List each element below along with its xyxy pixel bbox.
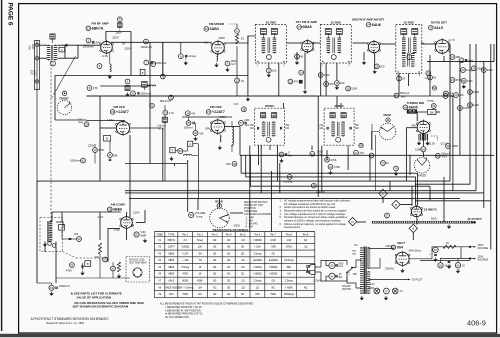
grid cap C2 callout <box>86 38 94 44</box>
svg-text:10.7MC: 10.7MC <box>403 20 415 24</box>
wire <box>369 249 395 269</box>
FM IF transformer T2 10.7MC <box>255 20 286 66</box>
osc cathode coil <box>218 135 222 150</box>
FRONT pulley hub <box>62 91 66 95</box>
V8 label <box>403 101 425 109</box>
ratio det electrolytic <box>459 58 474 63</box>
svg-text:2.5meg: 2.5meg <box>181 267 189 269</box>
wire <box>162 42 164 75</box>
svg-text:†1000Ω: †1000Ω <box>253 267 261 269</box>
part 150K <box>415 147 426 152</box>
svg-text:C: C <box>236 30 238 33</box>
svg-text:130V: 130V <box>124 47 131 51</box>
left margin rule <box>1 0 3 331</box>
wire <box>400 204 412 206</box>
svg-text:1M: 1M <box>198 287 201 289</box>
wire <box>369 155 371 181</box>
svg-text:600Ω: 600Ω <box>182 280 188 282</box>
filter cap 40mfd <box>429 247 438 262</box>
svg-text:750Ω: 750Ω <box>182 294 188 296</box>
wire <box>236 83 238 96</box>
svg-text:0Ω: 0Ω <box>272 280 275 282</box>
mixer osc-injection box <box>140 69 145 75</box>
AFC diode box <box>104 136 111 142</box>
svg-text:-1V: -1V <box>204 40 208 44</box>
wire <box>304 53 306 90</box>
svg-text:6AL5: 6AL5 <box>434 26 443 30</box>
wire <box>417 112 427 121</box>
wire <box>326 150 328 160</box>
68K part <box>87 86 98 91</box>
osc padder <box>239 120 251 127</box>
svg-text:NC: NC <box>241 294 245 296</box>
wire <box>320 63 322 96</box>
svg-text:0Ω: 0Ω <box>213 253 216 255</box>
svg-text:150K: 150K <box>415 147 421 151</box>
svg-text:ANT: ANT <box>33 70 37 76</box>
svg-text:2.5meg: 2.5meg <box>285 280 293 282</box>
wire <box>405 128 407 181</box>
cap am2 <box>80 263 84 275</box>
svg-text:0Ω: 0Ω <box>213 240 216 242</box>
wire <box>347 276 361 288</box>
part 47K am <box>66 263 74 273</box>
part 10K <box>443 94 454 99</box>
svg-text:A: A <box>61 48 63 52</box>
svg-text:mmf: mmf <box>338 266 343 268</box>
wire <box>182 116 232 118</box>
wire <box>415 183 470 185</box>
svg-text:6BE6: 6BE6 <box>113 208 122 212</box>
wire <box>245 155 247 177</box>
svg-text:117VAC: 117VAC <box>313 280 322 283</box>
wire <box>58 44 101 46</box>
svg-text:.2Ω: .2Ω <box>241 267 245 269</box>
wire <box>225 126 241 128</box>
svg-text:-22.5V: -22.5V <box>428 141 436 145</box>
svg-text:39K: 39K <box>113 154 118 158</box>
resistance readings table <box>154 228 314 298</box>
svg-text:SOURCE: SOURCE <box>478 247 489 250</box>
FM antenna terminal strip <box>35 41 40 90</box>
wire <box>36 90 38 284</box>
wire <box>278 63 280 96</box>
wire <box>55 75 248 77</box>
svg-text:★ MEASURED FROM PIN 5 OF V2: ★ MEASURED FROM PIN 5 OF V2 <box>165 313 203 316</box>
part 1000mmf <box>70 158 85 163</box>
svg-text:V8: V8 <box>404 105 408 109</box>
svg-text:1meg: 1meg <box>427 99 434 103</box>
V1 cathode coil <box>110 53 111 72</box>
part 470K <box>450 78 462 83</box>
wire <box>440 247 470 259</box>
on-off switch <box>342 260 361 291</box>
svg-text:1K: 1K <box>199 267 202 269</box>
svg-text:0Ω: 0Ω <box>213 267 216 269</box>
svg-text:10K: 10K <box>430 111 435 114</box>
part left det <box>425 71 431 80</box>
wire <box>483 62 485 208</box>
wire <box>250 185 430 187</box>
svg-text:6AB4: 6AB4 <box>210 27 219 31</box>
wire <box>219 198 221 207</box>
eye voltages <box>428 141 448 145</box>
svg-text:FM AFC: FM AFC <box>114 105 126 109</box>
REAR pulley label <box>384 113 392 117</box>
node diamond B <box>392 200 400 208</box>
choke resistor <box>443 242 456 248</box>
svg-text:68Ω: 68Ω <box>287 267 292 269</box>
V8 voltage <box>412 124 417 128</box>
wire <box>296 52 298 60</box>
wire <box>270 171 272 231</box>
svg-text:2Ω: 2Ω <box>227 267 230 269</box>
part 100K 2W <box>471 66 483 71</box>
svg-text:1K: 1K <box>446 242 449 245</box>
wire <box>111 41 212 43</box>
wire <box>193 143 199 145</box>
part R20 <box>397 76 406 81</box>
svg-text:V9: V9 <box>108 207 112 211</box>
heater winding leads <box>369 284 376 288</box>
tube V8 tuning eye <box>416 120 430 135</box>
wire <box>56 222 63 228</box>
wire <box>54 76 56 121</box>
svg-text:630: 630 <box>226 163 231 166</box>
svg-text:260Ω(ea): 260Ω(ea) <box>284 294 294 296</box>
svg-text:1K: 1K <box>241 37 244 41</box>
svg-text:6.3V: 6.3V <box>370 284 375 286</box>
svg-text:FM OSC: FM OSC <box>210 105 223 109</box>
wire <box>125 163 187 165</box>
wire <box>283 103 285 109</box>
svg-text:1500mmf: 1500mmf <box>155 61 166 65</box>
svg-text:Pin 4: Pin 4 <box>226 233 232 236</box>
V2 label <box>204 22 225 31</box>
wire <box>130 32 132 76</box>
svg-text:GM: GM <box>285 128 289 130</box>
svg-text:800K: 800K <box>197 280 203 282</box>
PAGE 6 margin label <box>7 3 14 26</box>
cap 47mmf <box>185 111 196 116</box>
svg-text:120V: 120V <box>107 118 114 122</box>
svg-text:0Ω: 0Ω <box>213 294 216 296</box>
node diamond D <box>348 217 356 225</box>
cap 630 <box>226 161 237 166</box>
svg-text:†1000Ω: †1000Ω <box>269 274 277 276</box>
AM loop antenna <box>48 220 53 242</box>
eye dashed pull <box>431 136 438 141</box>
svg-text:.1Ω: .1Ω <box>241 240 245 242</box>
part R11 <box>266 68 276 73</box>
svg-text:6BA6: 6BA6 <box>168 252 174 255</box>
part R21 <box>428 75 437 80</box>
part R14 <box>299 70 304 75</box>
node diamond A <box>409 224 417 232</box>
svg-text:670Ω: 670Ω <box>286 247 292 249</box>
line cap 1 <box>329 262 344 268</box>
svg-text:6X4: 6X4 <box>169 294 174 296</box>
wire <box>247 36 249 96</box>
svg-text:1M: 1M <box>287 274 290 276</box>
svg-text:FM MIXER: FM MIXER <box>209 22 225 26</box>
wire <box>429 55 431 96</box>
svg-text:6BE6: 6BE6 <box>168 274 174 276</box>
svg-text:Pin 9: Pin 9 <box>303 233 309 236</box>
part on 162 line <box>160 74 165 79</box>
svg-text:-1.9V: -1.9V <box>102 54 109 58</box>
V2 voltages <box>204 36 225 44</box>
svg-text:TO PILOT: TO PILOT <box>412 279 423 282</box>
photofact credit <box>31 317 110 325</box>
svg-text:BOTTOM VIEW: BOTTOM VIEW <box>130 261 148 264</box>
wire <box>321 272 329 281</box>
wire <box>246 176 416 178</box>
wire <box>420 260 470 262</box>
svg-text:FM RF AMP: FM RF AMP <box>92 21 109 25</box>
svg-text:2.2meg: 2.2meg <box>316 190 325 194</box>
svg-text:6BA6: 6BA6 <box>168 259 174 262</box>
svg-text:1K: 1K <box>241 79 244 83</box>
svg-text:measurements.: measurements. <box>284 226 301 229</box>
wire <box>100 127 116 129</box>
svg-text:0Ω: 0Ω <box>227 287 230 289</box>
svg-text:1/2 6BK7A: 1/2 6BK7A <box>424 208 437 212</box>
svg-text:V4: V4 <box>367 23 371 27</box>
osc grid leak 10K <box>193 131 204 141</box>
coupling cap <box>65 44 68 47</box>
bottom page band <box>0 334 500 337</box>
wire <box>406 127 416 129</box>
svg-text:1000mmf: 1000mmf <box>70 159 81 163</box>
tube V9 AM converter <box>120 215 134 230</box>
wire <box>398 74 400 97</box>
part 180K <box>446 144 459 149</box>
svg-text:600Ω: 600Ω <box>431 219 437 221</box>
tube V6 FM AFC <box>116 120 131 136</box>
svg-text:NC: NC <box>213 287 217 289</box>
svg-text:220V: 220V <box>88 144 95 148</box>
wire <box>126 229 128 240</box>
svg-text:.1Ω: .1Ω <box>241 260 245 262</box>
V1 voltages <box>94 31 131 58</box>
svg-text:4.7K: 4.7K <box>169 112 174 115</box>
svg-text:0Ω: 0Ω <box>272 253 275 255</box>
wire <box>36 41 38 90</box>
svg-text:406-9: 406-9 <box>467 318 486 327</box>
wire <box>417 173 419 205</box>
boxed resistor <box>299 80 303 84</box>
V9 label <box>108 203 127 212</box>
wire <box>240 155 242 173</box>
svg-text:5mfd: 5mfd <box>468 60 474 63</box>
svg-text:GM: GM <box>319 128 323 130</box>
wire <box>287 42 302 44</box>
wire <box>58 57 79 59</box>
svg-text:0V: 0V <box>122 42 126 46</box>
2.2meg resistor <box>178 54 196 65</box>
ground <box>425 141 429 145</box>
wire <box>436 111 440 113</box>
svg-text:1000: 1000 <box>467 80 473 83</box>
wire <box>353 42 368 44</box>
wire <box>493 44 495 62</box>
wire <box>363 52 365 60</box>
svg-text:100: 100 <box>380 65 385 69</box>
part 1000MF <box>461 78 473 88</box>
wire <box>164 122 166 181</box>
svg-text:2.2meg: 2.2meg <box>187 54 196 58</box>
svg-text:NOT SHOWN ON SCHEMATIC DIAGRAM: NOT SHOWN ON SCHEMATIC DIAGRAM <box>73 305 129 309</box>
am osc components <box>111 262 122 278</box>
svg-text:A PHOTOFACT STANDARD NOTATION: A PHOTOFACT STANDARD NOTATION SCHEMATIC <box>31 317 110 321</box>
part 470K <box>325 157 337 162</box>
wire <box>197 144 199 199</box>
wire <box>175 146 187 151</box>
wire <box>429 186 431 200</box>
svg-text:A: A <box>412 227 414 231</box>
wire <box>109 141 111 153</box>
svg-text:Pin 7: Pin 7 <box>270 233 276 236</box>
svg-text:— 22K: — 22K <box>182 260 190 262</box>
C4 trimmer box <box>59 47 65 52</box>
svg-text:V3: V3 <box>298 25 302 29</box>
T1 part callout <box>51 61 56 66</box>
svg-text:Pin 2: Pin 2 <box>197 233 203 236</box>
wire <box>224 36 256 43</box>
svg-text:R: R <box>172 150 174 153</box>
REAR control hub <box>217 204 222 209</box>
filter cap 30mfd <box>438 261 452 269</box>
part 1500mmf bottom <box>385 213 390 218</box>
wire <box>87 120 126 122</box>
svg-text:NC NO CONNECTION: NC NO CONNECTION <box>165 317 189 319</box>
V8 alt type black tag <box>407 109 417 113</box>
eye grid hatch <box>419 134 428 141</box>
antenna coil T1 primary <box>47 45 51 61</box>
power voltages <box>385 244 421 270</box>
part cap <box>108 153 118 161</box>
part 10K <box>454 93 464 98</box>
wire <box>415 177 417 206</box>
svg-text:B: B <box>395 203 397 207</box>
part 1500mmf on bus <box>131 91 152 96</box>
wire <box>55 119 87 121</box>
svg-text:½12AT7: ½12AT7 <box>212 110 225 114</box>
svg-text:10K: 10K <box>199 132 204 135</box>
wire <box>180 42 182 54</box>
tube V10 rectifier <box>395 251 410 267</box>
svg-text:Howard W. Sams & Co., Inc. 195: Howard W. Sams & Co., Inc. 1954 <box>46 322 85 325</box>
wire <box>336 63 338 80</box>
wire <box>37 180 450 182</box>
svg-text:REAR: REAR <box>215 199 223 203</box>
gang link pulley C <box>235 29 240 34</box>
REAR dial pulley <box>379 123 395 139</box>
wire <box>416 218 418 225</box>
V3 label <box>296 20 318 29</box>
wire <box>469 44 471 184</box>
wire <box>164 105 166 117</box>
part 2.2meg upper <box>284 175 293 184</box>
tube V1b half triode <box>410 205 423 218</box>
svg-text:470K: 470K <box>334 165 340 169</box>
wire <box>174 164 176 167</box>
wire <box>443 177 445 222</box>
wire <box>422 152 424 157</box>
wire <box>260 146 262 193</box>
svg-text:1W: 1W <box>318 153 322 157</box>
svg-text:47K: 47K <box>360 151 365 155</box>
svg-text:AM CONV: AM CONV <box>111 203 127 207</box>
svg-text:-4.7V: -4.7V <box>448 38 455 42</box>
AM osc coil bottom view box <box>126 257 150 283</box>
svg-text:470K: 470K <box>98 148 104 152</box>
svg-text:2000mmf: 2000mmf <box>59 284 70 288</box>
svg-text:Pin 3: Pin 3 <box>212 233 218 236</box>
ground <box>246 97 250 101</box>
AFC trimmer 1-8mmf <box>157 117 167 130</box>
filter cap 20mfd <box>455 263 465 274</box>
svg-text:N750: N750 <box>158 128 165 131</box>
svg-text:mmf: mmf <box>231 62 236 66</box>
svg-text:2K: 2K <box>433 76 436 80</box>
wire <box>100 95 318 97</box>
svg-text:A: A <box>61 226 63 230</box>
svg-text:NC: NC <box>271 287 275 289</box>
FM IF transformer T3 10.7MC <box>320 20 351 66</box>
svg-text:1M: 1M <box>198 253 201 255</box>
svg-text:AF OUTPUT: AF OUTPUT <box>468 218 483 221</box>
part small <box>103 257 108 262</box>
wire <box>422 133 424 146</box>
part 180K <box>468 90 480 95</box>
wire <box>452 96 454 191</box>
part 820K <box>328 164 340 174</box>
svg-text:.1Ω: .1Ω <box>241 280 245 282</box>
V4 label <box>352 18 385 27</box>
svg-text:TARGET: TARGET <box>417 175 427 178</box>
mixer trimmer <box>142 82 148 88</box>
wire <box>317 96 319 197</box>
svg-text:±2.6meg: ±2.6meg <box>284 260 294 262</box>
part 500mmf <box>394 92 409 98</box>
svg-text:6.: 6. <box>280 223 282 226</box>
svg-text:RECT: RECT <box>398 241 406 245</box>
svg-text:NC: NC <box>198 294 202 296</box>
wire <box>162 128 164 181</box>
svg-text:†1.2K: †1.2K <box>182 253 189 255</box>
svg-text:220: 220 <box>74 233 79 236</box>
cap on mixer grid <box>144 60 153 65</box>
part 100K <box>458 106 470 111</box>
part 2.2meg <box>78 117 89 127</box>
svg-text:FRONT: FRONT <box>60 97 70 101</box>
wire <box>340 103 342 109</box>
svg-text:270V: 270V <box>220 115 227 119</box>
wire <box>64 45 66 58</box>
wire <box>51 212 53 222</box>
wire <box>374 54 376 70</box>
svg-text:22K: 22K <box>95 256 100 259</box>
resistor 1K below pulley <box>235 34 244 44</box>
FM ANT label <box>28 44 36 50</box>
mixer grid cap <box>141 39 152 49</box>
am resistor <box>95 243 102 259</box>
part R19 <box>375 64 385 69</box>
part 100K <box>310 150 323 157</box>
REAR control label <box>215 199 223 203</box>
